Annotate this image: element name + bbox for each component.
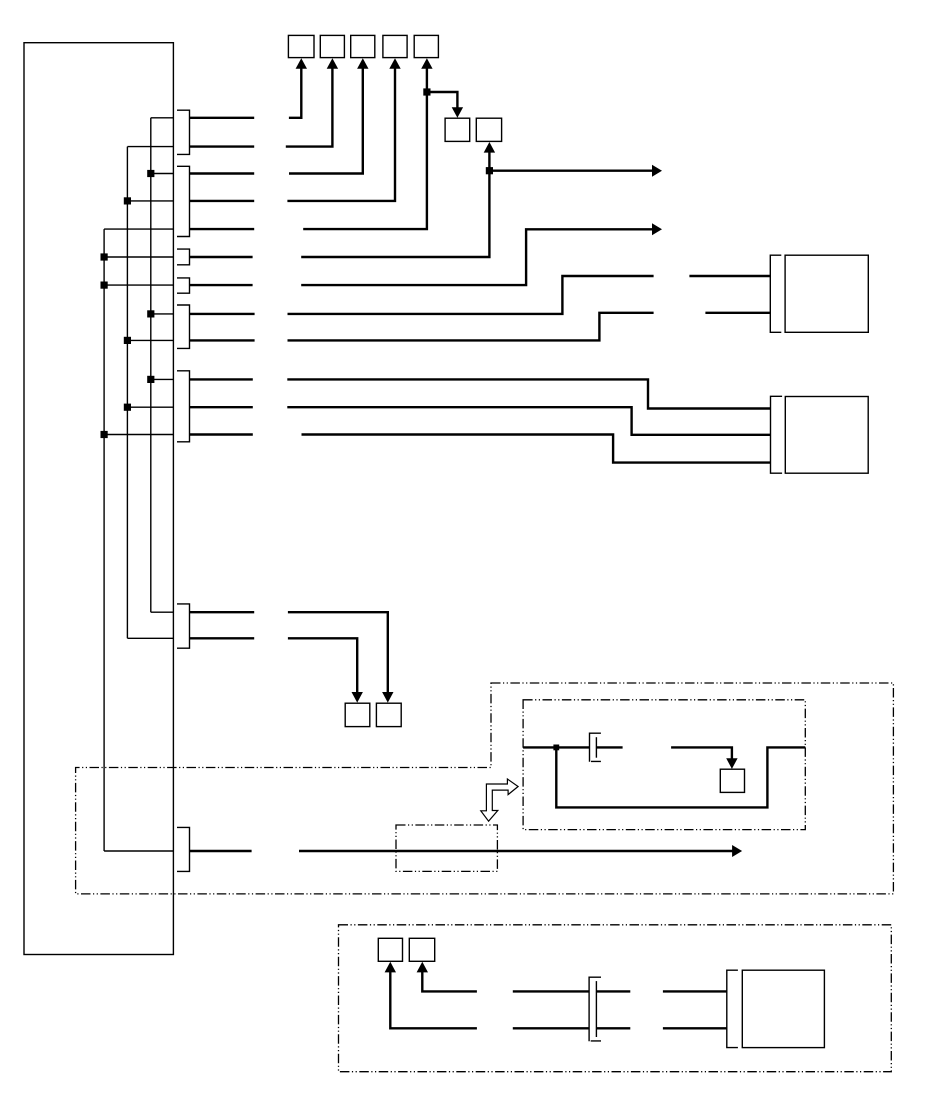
internal wire row 7: [104, 284, 173, 286]
wire W17 from box G6: [390, 971, 477, 1029]
wire W12 segment b stepping down to box K2: [302, 435, 771, 463]
junction dot on A2 drop wire: [486, 167, 493, 174]
connector tab T8: [177, 827, 190, 871]
junction dot on B2 row 11: [124, 404, 131, 411]
internal wire row 12: [104, 434, 173, 436]
connector box A1: [445, 118, 470, 141]
connector tab T4: [177, 278, 190, 293]
arrowhead into box G3: [357, 58, 368, 69]
junction dot on B2 row 9: [124, 337, 131, 344]
arrowhead into box G1: [296, 58, 307, 69]
wire W16 middle segment: [513, 990, 589, 992]
hollow elbow arrow pointer: [481, 779, 518, 821]
wire W15 segment a: [190, 850, 252, 852]
small dashed label box on W15: [396, 825, 497, 871]
wire W16 segment into bracket of M1: [663, 990, 727, 992]
connector box A2: [476, 118, 501, 141]
arrowhead into box G2: [327, 58, 338, 69]
wire W3 segment b with riser to box G3: [289, 67, 363, 174]
arrowhead output row 2: [652, 223, 662, 235]
internal wire row 1: [151, 117, 174, 119]
connector tab T7: [177, 604, 190, 648]
bracket of relay box K1: [770, 255, 781, 332]
internal bus line B3: [150, 118, 152, 612]
connector box H2: [376, 703, 401, 726]
splice connector S2 outer: [589, 977, 601, 1041]
connector tab T3: [177, 249, 190, 265]
wire W6 segment a: [190, 256, 253, 258]
connector tab T2: [177, 166, 190, 236]
arrowhead output W15: [732, 845, 742, 857]
wire W12 segment a: [190, 433, 253, 435]
wire W9 segment c into bracket of K1: [705, 312, 770, 314]
connector box H1: [345, 703, 370, 726]
wire W1 segment a: [190, 117, 255, 119]
ECU main box U1: [24, 43, 173, 955]
ground box G7: [409, 938, 434, 961]
wire W10 segment b stepping down to box K2: [287, 379, 770, 408]
relay box K1: [785, 255, 868, 332]
shield dashed region outline: [76, 683, 894, 894]
wire W16 after splice: [596, 990, 630, 992]
ground box G1: [288, 35, 314, 57]
wire W7 segment b rising to arrow row: [301, 229, 653, 285]
junction dot on B1 row 7: [101, 282, 108, 289]
relay coil box: [720, 769, 744, 792]
wire W16 from box G7: [422, 971, 477, 992]
arrowhead into box A2: [484, 142, 495, 153]
wire W2 segment b with riser to box G2: [286, 67, 333, 147]
wire branch to box A1: [427, 92, 458, 109]
internal wire row 8: [151, 313, 174, 315]
junction dot on B3 row 10: [147, 376, 154, 383]
wire W8 segment a: [190, 313, 255, 315]
arrowhead into box H2: [382, 692, 393, 703]
wire W17 middle segment: [513, 1027, 589, 1029]
internal wire row 4: [127, 200, 173, 202]
wire W14 segment a: [190, 637, 254, 639]
internal wire row 6: [104, 256, 173, 258]
splice connector S1 outer: [590, 733, 601, 762]
internal wire row 15: [104, 850, 173, 852]
junction dot in relay circuit: [553, 745, 559, 751]
relay circuit wire to coil: [671, 747, 732, 760]
wire W8 segment c into bracket of K1: [689, 275, 770, 277]
wire W15 segment b output arrow line: [299, 850, 733, 852]
wire W6 segment b with riser to box A2: [301, 151, 489, 258]
splice connector S2 inner pin: [595, 981, 597, 1037]
relay box K2: [785, 397, 868, 474]
arrowhead into box G5: [421, 58, 432, 69]
wire W13 segment a: [190, 611, 254, 613]
junction dot on B1 row 6: [101, 253, 108, 260]
ground box G5: [414, 35, 438, 57]
inner dashed box of relay circuit: [523, 700, 805, 830]
internal bus line B1: [103, 229, 105, 851]
wire W13 segment b dropping to box H2: [288, 612, 388, 694]
wire W1 segment b with riser to box G1: [289, 67, 301, 118]
ground box G3: [351, 35, 375, 57]
relay circuit wire after splice: [596, 746, 622, 748]
wire W2 segment a: [190, 145, 255, 147]
relay circuit feed wire: [523, 746, 589, 748]
wire W7 segment a: [190, 284, 253, 286]
arrowhead into relay coil box: [726, 758, 737, 769]
ground box G4: [383, 35, 407, 57]
wire W5 segment a: [190, 228, 255, 230]
wire W17 segment into bracket of M1: [663, 1027, 727, 1029]
wire W4 segment b with riser to box G4: [287, 67, 395, 201]
junction dot on B2 row 4: [124, 197, 131, 204]
bracket of box M1: [727, 970, 738, 1047]
wire W9 segment a: [190, 339, 255, 341]
relay circuit return loop wire: [556, 747, 805, 807]
bottom dashed region outline: [339, 925, 892, 1072]
wire W5 segment b with riser to box G5: [303, 67, 427, 229]
arrowhead into box G6: [385, 962, 396, 973]
arrowhead into box H1: [352, 692, 363, 703]
internal bus line B2: [126, 147, 128, 639]
connector tab T6: [177, 371, 190, 442]
junction dot on B3 row 8: [147, 310, 154, 317]
output arrow row 1 wire: [489, 169, 653, 171]
wire W11 segment a: [190, 406, 253, 408]
arrowhead into box A1: [452, 107, 463, 118]
splice connector S1 inner pin: [595, 737, 597, 758]
internal wire row 9: [127, 339, 173, 341]
wire W3 segment a: [190, 172, 255, 174]
connector tab T5: [177, 305, 190, 348]
connector tab T1: [177, 110, 190, 154]
ground box G2: [320, 35, 344, 57]
junction dot on B1 row 12: [101, 431, 108, 438]
arrowhead output row 1: [652, 165, 662, 177]
internal wire row 3: [151, 173, 174, 175]
junction dot on B3 row 3: [147, 170, 154, 177]
component box M1: [742, 970, 824, 1047]
internal wire row 10: [151, 378, 174, 380]
internal wire row 11: [127, 406, 173, 408]
wire W9 segment b rising to row for box K1: [288, 313, 654, 341]
wire W4 segment a: [190, 200, 255, 202]
internal wire row 5: [104, 228, 173, 230]
bracket of relay box K2: [771, 396, 783, 473]
wire W8 segment b rising to row for box K1: [288, 276, 654, 314]
wire W11 segment b stepping down to box K2: [287, 407, 770, 435]
ground box G6: [378, 938, 402, 961]
arrowhead into box G7: [417, 962, 428, 973]
internal wire row 2: [127, 146, 173, 148]
wire W14 segment b dropping to box H1: [288, 638, 357, 694]
arrowhead into box G4: [389, 58, 400, 69]
wire W10 segment a: [190, 378, 253, 380]
wire W17 after splice: [596, 1027, 630, 1029]
internal wire row 13: [151, 611, 174, 613]
junction dot on W5 riser: [423, 88, 430, 95]
internal wire row 14: [127, 637, 173, 639]
